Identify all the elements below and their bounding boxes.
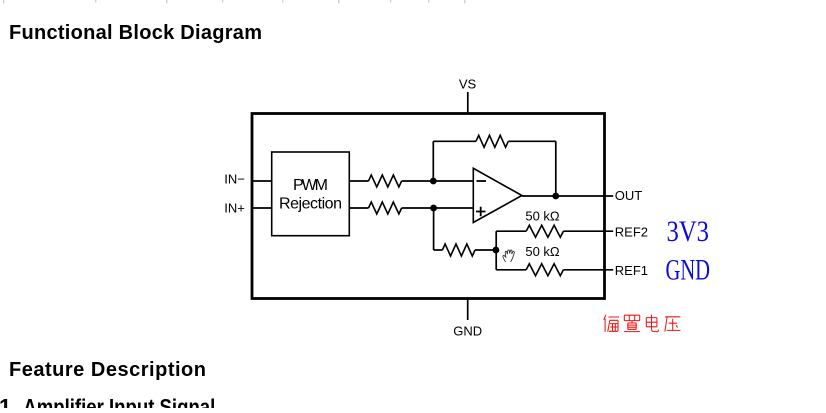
resistor R2 (IN+ path) — [369, 202, 402, 214]
svg-text:IN+: IN+ — [224, 200, 245, 215]
wire VS stub — [467, 92, 469, 114]
wire REF1 row left — [496, 269, 526, 271]
svg-text:Feature Description: Feature Description — [9, 359, 206, 381]
wire PWM out top — [349, 180, 368, 182]
resistor R4 (reference divider input) — [442, 244, 475, 256]
svg-text:PWM: PWM — [293, 177, 328, 194]
svg-text:1.: 1. — [0, 395, 17, 409]
wire feedback right vertical — [555, 141, 557, 196]
svg-text:Amplifier Input Signal: Amplifier Input Signal — [23, 395, 215, 409]
svg-text:50 kΩ: 50 kΩ — [525, 208, 560, 223]
wire R2 to op-amp plus input — [402, 207, 474, 209]
node A (inverting input junction) — [430, 178, 437, 185]
wire feedback top left — [433, 140, 476, 142]
svg-text:IN−: IN− — [224, 172, 245, 187]
resistor R3 (feedback) — [476, 135, 508, 147]
PWM Rejection block U1 — [272, 152, 350, 236]
wire PWM out bottom — [349, 207, 368, 209]
svg-text:VS: VS — [459, 76, 477, 91]
wire REF2 row left — [496, 230, 526, 232]
resistor R1 (IN- path) — [369, 175, 402, 187]
svg-text:50 kΩ: 50 kΩ — [525, 244, 560, 259]
wire op-amp output to OUT — [522, 195, 613, 197]
main box — [252, 114, 605, 299]
svg-text:GND: GND — [666, 253, 711, 286]
wire R6 to REF1 — [563, 269, 613, 271]
wire R5 to REF2 — [563, 230, 613, 232]
svg-text:Functional Block Diagram: Functional Block Diagram — [9, 22, 262, 44]
wire R4 to junction — [475, 249, 496, 251]
wire IN- to PWM block — [252, 180, 272, 182]
wire R1 to op-amp minus input — [402, 180, 474, 182]
resistor R5 (50 kOhm REF2) — [526, 225, 563, 237]
op-amp U2 — [473, 168, 522, 222]
wire IN+ to PWM block — [252, 207, 272, 209]
node B (non-inverting input junction) — [430, 205, 437, 212]
hand cursor mark — [503, 250, 514, 262]
svg-text:GND: GND — [453, 324, 482, 339]
node C (output junction) — [552, 193, 559, 200]
wire junction up to REF2 row — [495, 231, 497, 250]
clipped next heading: Amplifier Input Signal — [0, 395, 215, 413]
wire node B down to divider — [433, 208, 435, 250]
resistor R6 (50 kOhm REF1) — [526, 264, 563, 276]
annotation 偏置电压 (red, drawn strokes) — [604, 315, 681, 332]
svg-text:OUT: OUT — [615, 188, 643, 203]
clipped descenders of previous text line — [3, 0, 465, 4]
svg-text:Rejection: Rejection — [279, 196, 342, 213]
wire to divider resistor — [434, 249, 443, 251]
svg-text:3V3: 3V3 — [667, 215, 710, 248]
node D (reference divider junction) — [493, 247, 500, 254]
svg-text:REF2: REF2 — [615, 225, 648, 240]
wire feedback left vertical — [432, 141, 434, 181]
wire feedback top right — [508, 140, 556, 142]
wire junction down to REF1 row — [495, 250, 497, 270]
svg-text:REF1: REF1 — [615, 263, 648, 278]
wire GND stub — [467, 299, 469, 321]
